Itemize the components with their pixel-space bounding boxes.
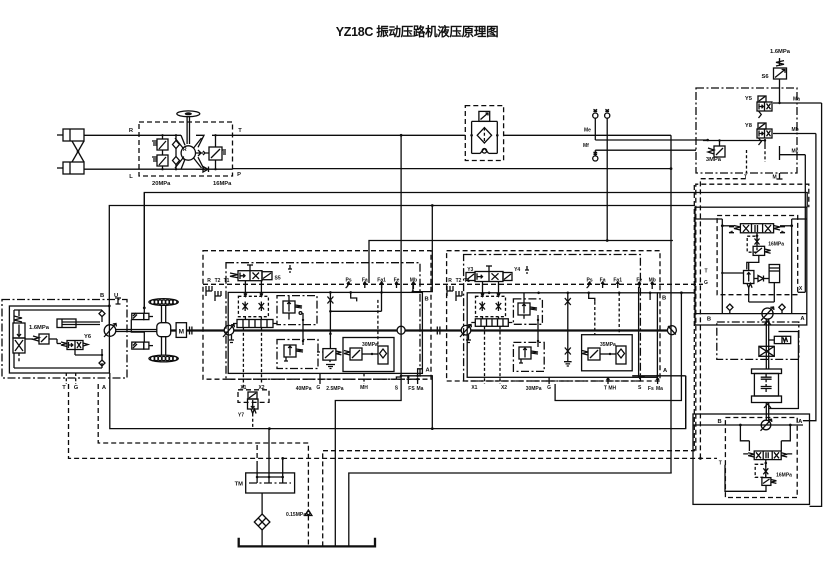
steering amplifier valve (199, 134, 226, 170)
wire Mb riser right edge (803, 134, 816, 421)
wire vibration motor2 AB line (693, 419, 803, 426)
port Fa1 pump1 (377, 278, 386, 289)
svg-text:Mf: Mf (583, 143, 589, 149)
svg-text:3MPa: 3MPa (706, 157, 722, 163)
travel motor (104, 324, 116, 338)
port MH pump1 (360, 373, 368, 391)
svg-text:20MPa: 20MPa (152, 181, 171, 187)
check valve on P line (203, 167, 209, 173)
svg-text:R: R (183, 147, 187, 153)
orifice X vibration2 (755, 460, 768, 478)
wire shaft pump2 to aux pump (471, 329, 668, 331)
wire Fa1 riser pump1 (381, 284, 383, 292)
steering wheel (177, 111, 200, 144)
port Mb pump1 (410, 278, 417, 290)
svg-text:30MPa: 30MPa (362, 342, 378, 348)
pressure cutoff block 35MPa pump2 (582, 335, 633, 371)
svg-text:A: A (426, 368, 431, 374)
svg-text:B: B (718, 419, 722, 425)
solenoid valve Y6 (61, 334, 92, 350)
node P junction (670, 167, 673, 170)
wire drive shaft motor to differential (116, 330, 157, 332)
svg-text:T: T (238, 128, 242, 134)
travel direction valve (13, 310, 25, 362)
wire valve2 feeds (740, 425, 790, 451)
test coupling Mf (583, 143, 696, 161)
wire pump2 B line (488, 292, 695, 302)
svg-text:B: B (707, 317, 711, 323)
wire L line cylinders to steering unit (84, 168, 139, 170)
wire vibration1 internals (704, 269, 774, 303)
pilot control manifold box (696, 88, 797, 173)
port G pump2 (547, 377, 551, 391)
relief valve 16MPa vibration1 (747, 242, 784, 270)
steering relief valve upper (152, 139, 168, 150)
wire Ps feed Z pump1 (351, 292, 357, 301)
vibration motor 2 (761, 419, 772, 431)
accumulator vibration1 (769, 265, 780, 303)
wire servo riser (302, 313, 304, 345)
tank mark pilot (288, 265, 292, 272)
svg-text:Y6: Y6 (84, 334, 92, 340)
port S pump2 (638, 376, 645, 391)
port Ma pump1 (416, 378, 424, 392)
orifice control box pump2 (476, 282, 506, 319)
svg-text:R: R (448, 278, 452, 284)
relief valve 3MPa (706, 146, 725, 163)
svg-text:16MPa: 16MPa (768, 242, 784, 248)
svg-text:G: G (547, 385, 551, 391)
wire R line cylinders to steering unit (84, 134, 139, 136)
vibration motor 1 (761, 307, 774, 321)
swash stroking block pump2 (471, 319, 512, 327)
wire pilot drain dashed d3 (69, 384, 718, 458)
svg-text:G: G (74, 385, 79, 391)
axle shafts (162, 305, 166, 355)
wire servo riser pump2 (537, 315, 539, 347)
svg-text:T2: T2 (456, 278, 462, 284)
wire pilot drain dashed d1 (98, 384, 308, 510)
pump2 rotary group (460, 325, 471, 343)
brake release cylinder (57, 319, 100, 328)
wire pump2 S wrap line (555, 293, 681, 401)
auxiliary steering pump (667, 326, 676, 335)
port Ps pump2 (587, 278, 593, 289)
port G pump1 (316, 373, 320, 391)
servo valve lower pump1 (277, 340, 318, 369)
svg-text:L: L (129, 174, 133, 180)
svg-text:1.6MPa: 1.6MPa (770, 49, 791, 55)
svg-text:G: G (704, 280, 708, 286)
return filter box (465, 106, 503, 161)
wire T line steering to filter (233, 134, 466, 136)
solenoid valve Y7 (238, 390, 269, 428)
svg-text:16MPa: 16MPa (776, 473, 792, 479)
port S pump1 (395, 377, 402, 392)
rear brake actuator (132, 342, 153, 349)
front tyre (149, 299, 178, 306)
wire aux pump riser T-return vertical (670, 135, 672, 473)
shaft coupling 2 (437, 327, 440, 335)
vibration valve block 1 (695, 207, 807, 325)
relief valve 2.5MPa (317, 349, 341, 369)
svg-text:R: R (129, 128, 134, 134)
svg-text:T2: T2 (215, 278, 221, 284)
wire main drive shaft (234, 329, 397, 331)
servo valve upper pump2 (513, 293, 542, 325)
orifice control box pump1 (238, 281, 268, 320)
wire T line filter to right corner (504, 134, 671, 136)
node T junction at x401 (400, 134, 403, 137)
steering gerotor unit (175, 138, 202, 168)
svg-text:X2: X2 (501, 385, 507, 391)
wire motor1 shaft (764, 319, 771, 369)
svg-text:40MPa: 40MPa (296, 386, 312, 392)
port X1 pump1 (240, 328, 246, 392)
vibratory exciter (752, 369, 782, 403)
proportional valve vibration1 (729, 224, 785, 233)
check diamond upper (99, 311, 105, 317)
check diamond vibration1 left (727, 304, 733, 314)
port X vibration1 (798, 286, 806, 292)
port Fe pump2 (636, 278, 642, 289)
svg-text:A: A (663, 368, 668, 374)
port FS pump1 (407, 376, 415, 392)
servo valve upper pump1 (277, 296, 317, 325)
svg-text:B: B (100, 293, 104, 299)
port X2 pump2 (500, 326, 507, 391)
filter clog indicator (479, 111, 490, 121)
pump block 2 (vibration pump) (447, 251, 660, 381)
svg-text:G: G (316, 385, 320, 391)
wire drain header y242 (369, 241, 673, 284)
wire shaft pump1 to pump2 (405, 329, 461, 331)
wire brake pilot riser x144 (143, 193, 145, 314)
wire vibration1 supply left (721, 224, 734, 313)
svg-text:S: S (638, 385, 642, 391)
pump block 1 (drive pump) (203, 251, 431, 380)
port Ma pump2 (656, 378, 663, 392)
check valve filter bypass (480, 148, 489, 153)
test coupling Me (584, 109, 709, 141)
check valve diamond lower (173, 157, 180, 165)
svg-text:0.15MPa: 0.15MPa (286, 512, 306, 518)
wire pump1 A line (400, 368, 431, 378)
oil manifold TM (235, 429, 295, 493)
svg-text:T: T (719, 461, 722, 467)
svg-text:B: B (662, 296, 666, 302)
svg-text:Mc: Mc (792, 148, 799, 154)
port Ps pump1 (346, 278, 352, 289)
check diamond vibration1 right (779, 304, 785, 314)
wire P line steering to aux pump riser (233, 168, 672, 170)
port T MH pump2 (604, 378, 617, 392)
servo valve lower pump2 (513, 342, 544, 371)
wire pilot port rail (203, 283, 703, 285)
orifice X vibration1 (747, 233, 759, 252)
svg-text:T1: T1 (224, 278, 230, 284)
svg-text:R: R (207, 278, 211, 284)
wire drain riser x607 (606, 118, 608, 240)
svg-text:X1: X1 (471, 385, 477, 391)
wire pump2 A line (632, 368, 686, 377)
relief valve 16MPa vibration2 (719, 461, 792, 492)
port X1 pump2 (471, 326, 484, 391)
svg-text:Y5: Y5 (745, 96, 753, 102)
wire Mc riser to X port (804, 155, 806, 293)
wire Ma riser right edge (810, 103, 822, 506)
check valve 0.15MPa (286, 510, 312, 546)
solenoid valve Y5 (745, 96, 772, 118)
svg-text:T: T (62, 385, 66, 391)
test coupling on T riser (605, 109, 610, 118)
svg-text:Ma: Ma (656, 386, 663, 392)
wire travel supply y205.5 (109, 206, 695, 306)
port Fa pump2 (600, 278, 606, 289)
svg-text:FS: FS (408, 386, 415, 392)
node pump1 B-edge junctions (329, 291, 383, 294)
svg-text:Ma: Ma (417, 386, 424, 392)
port Fs pump2 (648, 386, 654, 392)
svg-text:S6: S6 (761, 74, 769, 80)
svg-text:M: M (773, 175, 777, 181)
orifice X column pump1 (327, 292, 381, 348)
steering unit box (129, 122, 242, 187)
wire exciter shaft lower (764, 403, 771, 421)
wire pump2 A corner riser (685, 376, 687, 429)
port R T2 T1 pump2 (447, 278, 470, 301)
port U symbol (115, 298, 121, 304)
svg-text:1.6MPa: 1.6MPa (29, 325, 50, 331)
svg-text:P: P (237, 172, 241, 178)
wire pilot supply y192.5 (144, 193, 807, 308)
rear tyre (149, 355, 178, 362)
svg-text:S: S (395, 386, 399, 392)
svg-text:30MPa: 30MPa (526, 386, 542, 392)
wire Ps feed Z pump2 (589, 293, 595, 302)
vibration valve block 2 (693, 414, 810, 504)
svg-text:Mb: Mb (792, 127, 799, 133)
differential housing (157, 323, 171, 337)
svg-text:A: A (800, 316, 805, 322)
wire shaft differential to gearbox (171, 329, 176, 331)
svg-text:A: A (798, 419, 803, 425)
svg-text:Ma: Ma (793, 97, 800, 103)
wire vibration motor1 AB line (695, 314, 807, 323)
travel motor block (2, 293, 127, 391)
port R T2 T1 pump1 (206, 278, 230, 301)
svg-text:TM: TM (235, 482, 244, 488)
node pump2 B-edge junctions (567, 292, 652, 295)
svg-text:M: M (179, 329, 184, 336)
relief valve S6 (761, 49, 790, 103)
wire pump1 A to main return (418, 376, 433, 429)
filter element (477, 128, 491, 143)
svg-text:YZ18C 振动压路机液压原理图: YZ18C 振动压路机液压原理图 (336, 24, 499, 39)
wire Fa1 pilot drop pump2 (618, 293, 620, 335)
relief valve 1.6MPa travel (25, 325, 57, 344)
shaft coupling box (759, 346, 774, 356)
svg-text:S5: S5 (275, 276, 281, 282)
wire travel block internals (14, 305, 111, 385)
solenoid valve Y8 (745, 123, 772, 145)
svg-text:Y8: Y8 (745, 123, 753, 129)
wire shaft gearbox to pump1 (187, 329, 225, 331)
wire brake tee (131, 320, 144, 343)
pressure cutoff block 30MPa pump1 (343, 338, 394, 372)
wire S6 supply riser (779, 58, 781, 66)
wire pilot drain dashed d2 (323, 184, 695, 546)
svg-text:B: B (425, 297, 429, 303)
tank mark pilot pump2 (525, 266, 529, 273)
front brake actuator (132, 313, 153, 320)
svg-text:Me: Me (584, 128, 591, 134)
wire dashed riser x700 (700, 179, 746, 459)
svg-text:T: T (744, 175, 747, 181)
steering cylinder left pair (57, 129, 84, 174)
pump1 rotary group (223, 325, 234, 343)
check diamond lower (99, 360, 105, 366)
svg-text:T MH: T MH (604, 386, 617, 392)
svg-text:Y7: Y7 (238, 413, 244, 419)
gearbox M (176, 323, 186, 338)
hydraulic tank (239, 538, 375, 547)
svg-text:Y4: Y4 (514, 267, 520, 273)
right column outer dashed box (696, 184, 809, 451)
wire tank header y473 (349, 473, 672, 546)
vibration brake cylinder (769, 336, 791, 343)
port Fe pump1 (394, 278, 400, 289)
shaft coupling (190, 327, 192, 335)
port Fa1 pump2 (613, 278, 622, 289)
motor1 assembly dash-dot box (717, 322, 799, 359)
svg-text:16MPa: 16MPa (213, 181, 232, 187)
wire riser x401 filter to tank elbow (335, 135, 401, 546)
svg-text:MH: MH (360, 385, 368, 391)
check valve vibration1 (758, 276, 764, 282)
swash stroking block pump1 (233, 320, 277, 328)
port Mb pump2 (649, 278, 656, 290)
wire brake sensor loop (769, 332, 799, 409)
flow control valve vibration1 (744, 262, 754, 287)
check valve diamond upper (173, 141, 180, 149)
svg-text:2.5MPa: 2.5MPa (326, 386, 343, 392)
solenoid valve S5 (230, 265, 281, 282)
wire Fe riser pump2 (638, 284, 641, 377)
svg-text:35MPa: 35MPa (600, 342, 616, 348)
wire main return y428.6 (110, 376, 686, 429)
wire vibration1 supply right (695, 219, 807, 314)
wire pilot manifold internals (703, 97, 822, 181)
svg-text:A: A (102, 385, 107, 391)
port Fa pump1 (362, 278, 368, 289)
svg-text:Fs: Fs (648, 386, 654, 392)
svg-text:T: T (704, 269, 707, 275)
port X2 pump1 (258, 328, 264, 392)
orifice X column pump2 (564, 293, 572, 366)
wire steering internals (139, 134, 233, 170)
svg-text:X: X (799, 286, 803, 292)
proportional valve vibration2 (743, 451, 792, 460)
charge pump (397, 326, 405, 334)
solenoid valve Y3 Y4 (466, 266, 520, 282)
wire riser x432 to pump1 B (413, 206, 432, 292)
steering relief valve lower (152, 155, 168, 166)
wire cylinder cross lines (72, 141, 84, 162)
suction strainer (254, 493, 270, 546)
